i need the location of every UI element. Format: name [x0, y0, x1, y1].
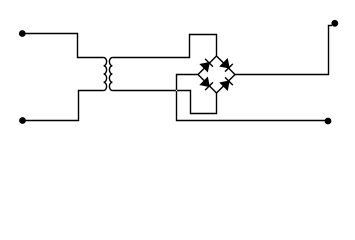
bridge edge left-bottom	[198, 75, 217, 94]
wire bridge right node (DC+) to top-right terminal	[235, 26, 332, 75]
diode D3 cathode bar	[205, 82, 213, 90]
terminal bottom-right	[325, 118, 331, 124]
wire bottom-left terminal to primary bottom	[23, 91, 104, 121]
crossing gap at DC- wire over secondary bottom wire	[176, 90, 177, 91]
terminal top-left	[19, 31, 25, 37]
diode D1 cathode bar	[205, 59, 213, 67]
transformer secondary winding	[109, 58, 112, 91]
bridge edge left-top	[198, 56, 217, 75]
diode D2 cathode bar	[225, 64, 233, 72]
diode D3 triangle (left to bottom)	[201, 78, 209, 86]
diode D1 triangle (left to top)	[201, 63, 209, 71]
wire bridge left node (DC-) to bottom-right terminal	[177, 75, 329, 121]
terminal top-right	[332, 20, 338, 26]
bridge edge bottom-right	[217, 75, 236, 94]
terminal bottom-left	[20, 118, 26, 124]
diode D2 triangle (top to right)	[221, 59, 229, 67]
wire secondary bottom to bridge bottom node	[112, 91, 216, 114]
bridge edge top-right	[217, 56, 236, 75]
transformer primary winding	[104, 58, 107, 91]
wire top-left terminal to primary top	[22, 34, 103, 58]
wire secondary top to bridge top node	[112, 35, 216, 58]
diode D4 cathode bar	[225, 77, 233, 85]
diode D4 triangle (bottom to right)	[221, 81, 229, 89]
